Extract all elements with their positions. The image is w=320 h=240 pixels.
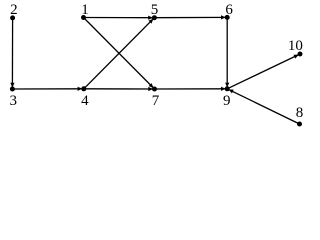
node 4 [81,86,86,91]
node 1 [81,15,86,20]
node 5 [152,15,157,20]
svg-text:1: 1 [81,2,89,18]
svg-text:2: 2 [10,2,18,18]
svg-text:9: 9 [223,93,231,109]
svg-text:7: 7 [152,93,160,109]
edge 7 to 9 [155,88,228,90]
edge 6 to 9 [226,17,228,88]
svg-text:10: 10 [288,38,303,54]
node 8 [297,122,302,127]
edge 4 to 7 [84,88,155,90]
edge 3 to 4 [12,88,83,90]
node 10 [298,52,303,57]
svg-text:3: 3 [9,93,17,109]
edge 4 to 5 [84,18,155,89]
edge 8 to 9 [227,89,299,124]
node 9 [225,86,230,91]
edge 2 to 3 [11,18,13,89]
edge 5 to 6 [154,16,227,18]
edge 1 to 7 [84,18,155,90]
svg-text:6: 6 [225,2,233,18]
node 7 [152,87,157,92]
edge 9 to 10 [227,54,300,89]
svg-text:8: 8 [296,105,304,121]
node 2 [10,15,15,20]
node 6 [225,15,230,20]
edge 1 to 5 [84,17,155,19]
node 3 [10,87,15,92]
svg-text:5: 5 [151,2,159,18]
svg-text:4: 4 [81,93,89,109]
